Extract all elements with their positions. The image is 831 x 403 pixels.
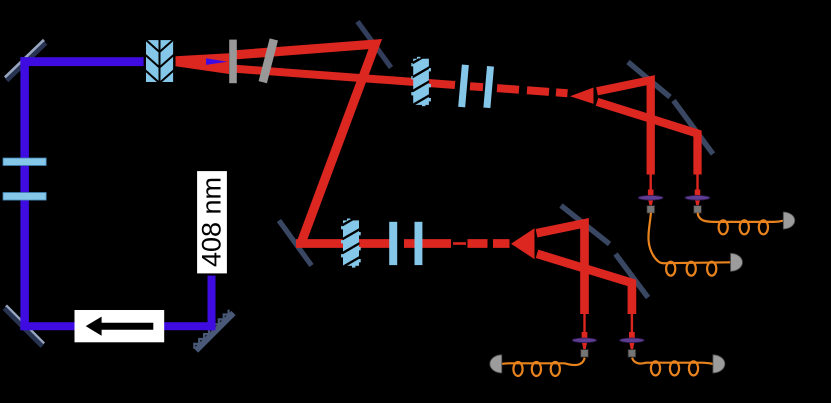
- fiber connector upper right: [694, 206, 702, 214]
- lower arm waist arrowhead: [511, 228, 535, 259]
- optical fiber from lower-right coupler with coils: [632, 358, 713, 376]
- upper arm beam A to mirror M4 plus vertical beam V1: [597, 80, 651, 174]
- coupler focus necks (red) upper right V2: [695, 173, 701, 206]
- fiber connector lower left: [581, 350, 589, 358]
- nonlinear crystal (BBO) with herringbone pattern: [145, 39, 175, 83]
- mirror M5 (upper arm right, second mirror): [674, 101, 714, 155]
- dashed beam segments toward upper waist: [470, 86, 568, 93]
- residual pump taper (violet) inside red wedge: [206, 58, 228, 65]
- mirror M3 (lower arm fold mirror): [279, 221, 312, 266]
- lens L4 (lower arm): [415, 222, 423, 265]
- detector D2 (upper-right arm): [783, 212, 795, 229]
- red SPDC wedge exiting crystal: [176, 53, 230, 74]
- telescope lens TL1 (horizontal light blue bar): [3, 158, 46, 166]
- svg-text:408 nm: 408 nm: [197, 177, 227, 267]
- pump beam: vertical segment left side: [20, 57, 29, 330]
- lens L3 (lower arm): [389, 222, 397, 265]
- coupler focus necks (red) lower right V4: [629, 313, 635, 350]
- compensation plate PL1 (vertical grey): [229, 40, 237, 84]
- lens L1 (upper arm): [458, 64, 469, 107]
- upper arm waist arrowhead: [570, 88, 594, 104]
- mirror M6 (bottom-left pump steering mirror): [4, 306, 44, 347]
- lower arm horizontal beam from M3 through filter and lenses: [296, 239, 390, 248]
- mirror M1 (top-left pump steering mirror): [5, 40, 46, 81]
- fiber connector lower right: [628, 350, 636, 358]
- pump beam: top horizontal segment to crystal: [20, 57, 146, 66]
- compensation plate PL2 (tilted grey): [259, 38, 278, 83]
- lower arm beam D to mirror M8 plus vertical beam V4: [537, 254, 632, 314]
- upper SPDC beam from plates to mirror M2: [236, 44, 376, 242]
- laser label box "408 nm": [196, 170, 228, 275]
- diffraction grating of laser: [194, 310, 233, 351]
- lens L2 (upper arm): [483, 66, 494, 108]
- fiber coupling lens (purple ellipse) upper right: [685, 196, 710, 201]
- fiber connector upper left: [647, 206, 655, 214]
- lower arm dashed segments: [468, 239, 510, 248]
- optical fiber from upper-left coupler with coils: [648, 213, 730, 276]
- fiber coupling lens (purple ellipse) upper left: [638, 196, 663, 201]
- lower arm thin waist segment: [453, 242, 466, 245]
- telescope lens TL2 (horizontal light blue bar): [3, 193, 46, 201]
- mirror M4 (upper arm right, first mirror): [628, 62, 670, 97]
- optical fiber from upper-right coupler with coils: [698, 213, 784, 235]
- pump beam: bottom horizontal segment: [20, 322, 215, 330]
- interference filter F1 (upper arm, hatched): [411, 53, 431, 106]
- lower arm beam C to mirror M7 plus vertical beam V3: [537, 223, 585, 314]
- mirror M2 (top middle, folds upper SPDC beam down): [358, 22, 392, 68]
- mirror M7 (lower arm right, first mirror): [561, 206, 610, 245]
- detector D1 (upper-left arm): [731, 253, 743, 271]
- coupler focus necks (red) lower left V3: [582, 313, 588, 350]
- optical isolator box with left arrow: [75, 310, 165, 342]
- lower SPDC beam: solid from plates through filter to first lens: [236, 69, 456, 85]
- detector D3 (lower-left arm): [490, 355, 502, 373]
- mirror M8 (lower arm right, second mirror): [616, 254, 649, 298]
- detector D4 (lower-right arm): [713, 355, 725, 373]
- interference filter F2 (lower arm, hatched): [341, 215, 361, 268]
- fiber coupling lens (purple ellipse) lower right: [620, 338, 644, 343]
- upper arm beam B to mirror M5 plus vertical beam V2: [597, 102, 698, 175]
- fiber coupling lens (purple ellipse) lower left: [572, 338, 596, 343]
- coupler focus necks (red) upper left V1: [648, 173, 654, 206]
- optical fiber from lower-left coupler with coils: [502, 358, 585, 376]
- pump beam: vertical segment from laser label to grating: [208, 273, 216, 331]
